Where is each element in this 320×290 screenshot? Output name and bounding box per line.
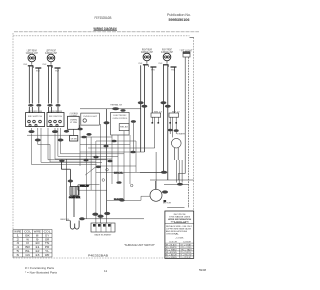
svg-text:SURFACE UNIT: SURFACE UNIT	[141, 51, 153, 54]
svg-text:BR: BR	[25, 246, 30, 249]
svg-text:* = Non-Illustrated Parts: * = Non-Illustrated Parts	[25, 271, 58, 275]
svg-text:OVEN LIGHT: OVEN LIGHT	[83, 116, 98, 118]
svg-text:R: R	[26, 242, 29, 245]
svg-text:ORIGINAL: ORIGINAL	[166, 233, 180, 236]
svg-text:59/08: 59/08	[199, 269, 207, 272]
svg-text:THERMAL SW: THERMAL SW	[110, 104, 123, 107]
svg-text:PR: PR	[45, 246, 50, 249]
svg-text:LIGHT: LIGHT	[70, 115, 79, 117]
svg-text:"SURFACE UNIT SWITCH": "SURFACE UNIT SWITCH"	[124, 244, 155, 247]
svg-text:RELAY: RELAY	[80, 184, 90, 187]
svg-text:TIMER: TIMER	[177, 134, 185, 136]
svg-text:BROIL: BROIL	[114, 173, 124, 175]
svg-text:BAKE: BAKE	[114, 198, 124, 201]
svg-text:Publication No.: Publication No.	[167, 13, 191, 17]
svg-text:SURFACE UNIT: SURFACE UNIT	[161, 51, 173, 54]
svg-text:BK: BK	[25, 234, 30, 237]
svg-text:LT SW: LT SW	[70, 122, 77, 124]
svg-text:CONV HTR: CONV HTR	[69, 197, 81, 199]
svg-text:MOTOR: MOTOR	[163, 203, 171, 205]
svg-text:AND INSULATION AS: AND INSULATION AS	[166, 230, 188, 233]
svg-text:GN = GREEN: GN = GREEN	[166, 257, 177, 259]
svg-text:P4E352BAB: P4E352BAB	[88, 253, 108, 257]
svg-text:SURFACE UNIT: SURFACE UNIT	[45, 52, 57, 55]
svg-text:FEF352BADB: FEF352BADB	[95, 16, 112, 20]
svg-text:RR LT: RR LT	[154, 111, 163, 113]
svg-text:CODE: CODE	[183, 241, 192, 243]
svg-text:THIS RANGE USES: THIS RANGE USES	[169, 216, 191, 219]
svg-text:OVEN CONTROL: OVEN CONTROL	[113, 118, 129, 120]
svg-text:TN: TN	[45, 242, 50, 245]
svg-text:COPPER WIRE SAME GAUGE: COPPER WIRE SAME GAUGE	[166, 227, 192, 230]
svg-text:BAKE ELEMENT: BAKE ELEMENT	[95, 234, 113, 237]
svg-text:SW: SW	[36, 71, 40, 73]
svg-text:REPLACE WIRE - USE ONLY: REPLACE WIRE - USE ONLY	[166, 225, 193, 228]
svg-text:INF SWITCH: INF SWITCH	[28, 116, 42, 118]
svg-text:SURFACE UNIT: SURFACE UNIT	[26, 52, 38, 55]
svg-text:RF LT: RF LT	[172, 111, 181, 113]
svg-text:GY: GY	[45, 234, 50, 237]
svg-text:GN: GN	[25, 254, 30, 257]
svg-text:DR SW: DR SW	[71, 138, 77, 140]
svg-text:COL: COL	[44, 231, 52, 234]
svg-text:SW: SW	[55, 71, 59, 73]
svg-text:INF SWITCH: INF SWITCH	[49, 116, 62, 118]
svg-text:5995350106: 5995350106	[169, 18, 190, 22]
svg-text:SW: SW	[151, 70, 155, 72]
svg-text:RELAY: RELAY	[120, 126, 129, 129]
svg-text:V = VIOLET: V = VIOLET	[180, 257, 192, 259]
svg-text:ELECTRONIC: ELECTRONIC	[114, 115, 127, 117]
svg-text:WR: WR	[45, 254, 50, 257]
svg-text:LF SURF SW: LF SURF SW	[49, 111, 62, 113]
svg-text:COLOR: COLOR	[169, 241, 178, 243]
svg-text:11: 11	[104, 269, 107, 273]
svg-text:WIRE: WIRE	[14, 231, 21, 234]
svg-text:WIRE: WIRE	[34, 231, 41, 234]
svg-text:OR: OR	[45, 238, 50, 241]
svg-text:COL: COL	[24, 231, 32, 234]
svg-text:-CODE-: -CODE-	[175, 238, 184, 240]
svg-text:# = Functioning Parts: # = Functioning Parts	[25, 266, 55, 270]
svg-text:LR SURF SW: LR SURF SW	[28, 111, 42, 113]
svg-text:SEE SERV DATA: SEE SERV DATA	[171, 221, 190, 224]
